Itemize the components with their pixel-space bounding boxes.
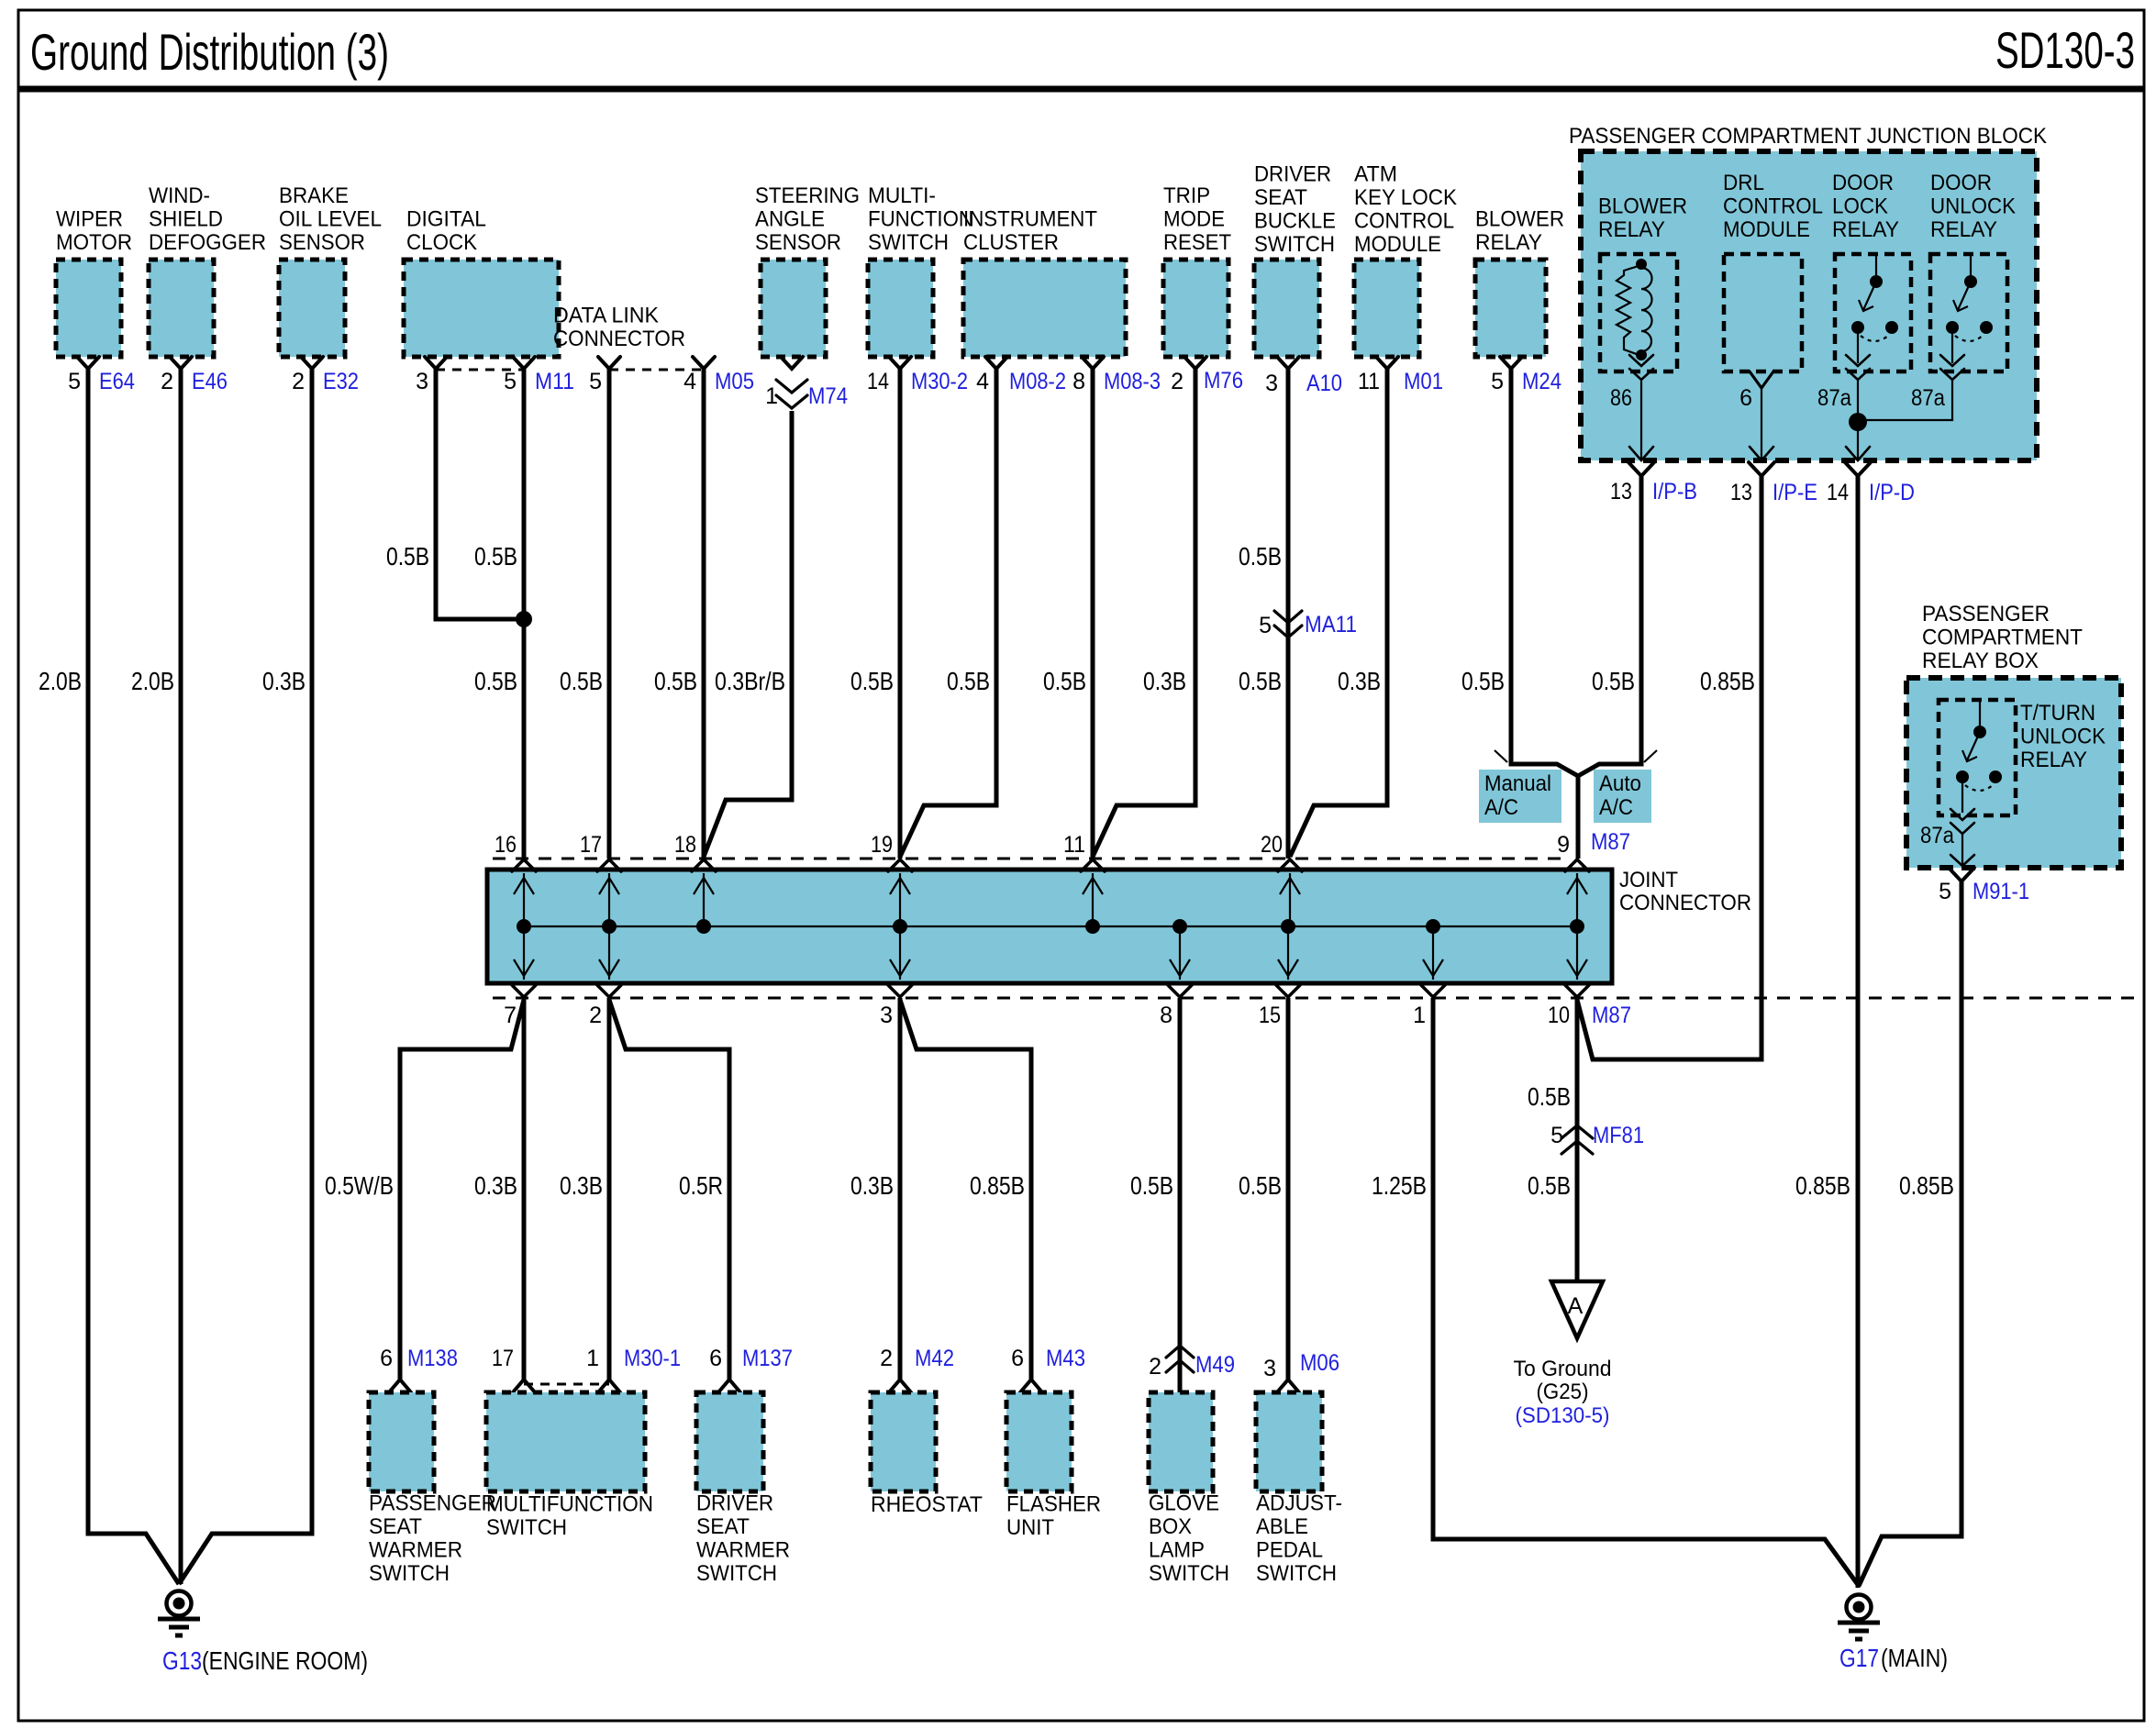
- component BLOWER RELAY (column) box: [1475, 260, 1546, 357]
- connector I/P-D pin 14: [1845, 462, 1871, 476]
- svg-text:SEAT: SEAT: [369, 1514, 422, 1539]
- svg-text:86: 86: [1610, 385, 1632, 411]
- wire M01 to joint connector pin 20 0.3B: [1290, 369, 1387, 857]
- svg-text:CLOCK: CLOCK: [406, 230, 477, 255]
- connector I/P-B pin 13: [1628, 462, 1654, 476]
- svg-text:M01: M01: [1404, 369, 1443, 394]
- svg-text:SWITCH: SWITCH: [1149, 1561, 1229, 1586]
- component PASSENGER SEAT WARMER SWITCH box: [369, 1392, 434, 1491]
- svg-text:M43: M43: [1046, 1346, 1085, 1371]
- joint connector top pin 11: [1081, 859, 1105, 926]
- svg-text:0.5B: 0.5B: [850, 667, 894, 695]
- wire joint pin 7 branch to M138 0.5W/B: [400, 1000, 524, 1380]
- svg-text:0.5B: 0.5B: [1461, 667, 1505, 695]
- pin 87a of door unlock relay: [1940, 355, 1964, 366]
- svg-text:11: 11: [1063, 832, 1085, 858]
- svg-text:PASSENGER: PASSENGER: [1922, 602, 2050, 626]
- svg-text:2: 2: [880, 1346, 893, 1371]
- svg-text:A/C: A/C: [1484, 795, 1518, 820]
- svg-text:18: 18: [674, 832, 696, 858]
- pin 86 of blower relay: [1629, 355, 1653, 366]
- svg-text:RELAY BOX: RELAY BOX: [1922, 648, 2039, 673]
- svg-text:BLOWER: BLOWER: [1598, 194, 1687, 219]
- svg-text:9: 9: [1557, 832, 1570, 858]
- svg-text:CONTROL: CONTROL: [1354, 209, 1454, 234]
- pin 87a of t/turn unlock relay: [1950, 809, 1974, 820]
- svg-text:E46: E46: [192, 369, 228, 394]
- wire M76 to joint connector pin 11 0.3B: [1093, 369, 1195, 857]
- component BRAKE OIL LEVEL SENSOR box: [279, 260, 345, 357]
- connector M05 dashed link: [609, 369, 704, 371]
- component STEERING ANGLE SENSOR box: [761, 260, 826, 357]
- svg-text:M08-3: M08-3: [1104, 369, 1161, 394]
- svg-text:16: 16: [495, 832, 517, 858]
- svg-text:17: 17: [492, 1346, 514, 1371]
- svg-text:I/P-B: I/P-B: [1652, 479, 1697, 504]
- JOINT CONNECTOR body: [487, 870, 1612, 983]
- svg-text:SENSOR: SENSOR: [279, 230, 365, 255]
- svg-text:0.5B: 0.5B: [1592, 667, 1635, 695]
- wire M11 pin 3 0.5B: [436, 369, 524, 619]
- svg-text:M91-1: M91-1: [1973, 879, 2029, 904]
- svg-text:10: 10: [1548, 1003, 1570, 1028]
- svg-text:0.3B: 0.3B: [262, 667, 306, 695]
- svg-text:6: 6: [1011, 1346, 1024, 1371]
- connector M06 fork pin 3: [1277, 1380, 1299, 1392]
- svg-text:SENSOR: SENSOR: [755, 230, 841, 255]
- component INSTRUMENT CLUSTER box: [963, 260, 1126, 357]
- wire blower relay to block edge: [1640, 380, 1642, 460]
- connector E64 fork pin 5: [77, 357, 99, 369]
- connector M24 fork pin 5: [1500, 357, 1522, 369]
- svg-text:LOCK: LOCK: [1832, 194, 1888, 219]
- wire E32 to ground G13 0.3B: [179, 369, 312, 1584]
- joint connector bus nodes: [517, 919, 531, 934]
- wire I/P-E to joint connector pin 10 0.85B: [1577, 476, 1761, 1059]
- svg-text:87a: 87a: [1920, 823, 1954, 848]
- svg-text:0.5B: 0.5B: [474, 542, 517, 571]
- svg-text:0.5B: 0.5B: [1239, 542, 1282, 571]
- connector M05 fork pin 4: [693, 357, 715, 369]
- wire joint pin 7 to M30-1 pin 17 0.3B: [522, 998, 527, 1380]
- svg-text:(ENGINE ROOM): (ENGINE ROOM): [202, 1646, 368, 1675]
- svg-text:I/P-E: I/P-E: [1773, 480, 1817, 505]
- svg-text:M74: M74: [808, 383, 848, 409]
- svg-text:DIGITAL: DIGITAL: [406, 207, 486, 232]
- svg-text:0.85B: 0.85B: [1795, 1171, 1850, 1200]
- ground G13: [167, 1591, 192, 1616]
- svg-text:WARMER: WARMER: [369, 1538, 462, 1563]
- connector E32 fork pin 2: [301, 357, 323, 369]
- svg-text:0.85B: 0.85B: [1899, 1171, 1954, 1200]
- svg-text:0.5B: 0.5B: [386, 542, 429, 571]
- svg-text:13: 13: [1610, 479, 1632, 504]
- relay T/TURN UNLOCK RELAY box: [1939, 700, 2016, 815]
- inline connector M49 pin 2: [1166, 1346, 1194, 1358]
- inline connector MF81 pin 5: [1561, 1125, 1593, 1138]
- svg-text:WARMER: WARMER: [696, 1538, 790, 1563]
- wire joint pin 1 to ground G17 1.25B: [1433, 998, 1859, 1586]
- svg-text:5: 5: [589, 369, 602, 394]
- svg-text:M87: M87: [1591, 829, 1630, 855]
- svg-text:DATA LINK: DATA LINK: [553, 304, 659, 328]
- svg-text:0.5B: 0.5B: [947, 667, 990, 695]
- component FLASHER UNIT box: [1006, 1392, 1072, 1491]
- svg-text:1: 1: [765, 383, 778, 409]
- svg-text:M05: M05: [715, 369, 754, 394]
- svg-text:2: 2: [589, 1003, 602, 1028]
- svg-text:SEAT: SEAT: [696, 1514, 750, 1539]
- svg-text:5: 5: [1939, 879, 1951, 904]
- svg-text:WIND-: WIND-: [149, 183, 210, 208]
- svg-text:17: 17: [580, 832, 602, 858]
- component DIGITAL CLOCK box: [404, 260, 559, 357]
- svg-text:(SD130-5): (SD130-5): [1516, 1403, 1610, 1428]
- component DRIVER SEAT BUCKLE SWITCH box: [1254, 260, 1319, 357]
- svg-text:A: A: [1568, 1293, 1584, 1319]
- svg-text:M87: M87: [1592, 1003, 1631, 1028]
- svg-text:13: 13: [1730, 480, 1752, 505]
- svg-text:KEY LOCK: KEY LOCK: [1354, 185, 1457, 210]
- svg-text:MOTOR: MOTOR: [56, 230, 132, 255]
- PASSENGER COMPARTMENT JUNCTION BLOCK box: [1581, 151, 2037, 460]
- svg-text:G17: G17: [1839, 1644, 1879, 1672]
- svg-text:0.5B: 0.5B: [560, 667, 603, 695]
- wire M05 pin 5 to joint connector pin 17 0.5B: [607, 369, 612, 859]
- svg-text:CONNECTOR: CONNECTOR: [1619, 891, 1751, 915]
- svg-text:2: 2: [1149, 1354, 1161, 1380]
- svg-text:8: 8: [1160, 1003, 1172, 1028]
- pin 87a of door lock relay: [1846, 355, 1870, 366]
- svg-text:0.5B: 0.5B: [654, 667, 697, 695]
- svg-text:5: 5: [504, 369, 517, 394]
- joint connector top pin 18: [692, 859, 716, 926]
- svg-text:RELAY: RELAY: [1832, 217, 1899, 242]
- svg-text:I/P-D: I/P-D: [1869, 480, 1915, 505]
- JOINT CONNECTOR internal bus: [524, 925, 1577, 927]
- connector M08-3 fork pin 8: [1082, 357, 1104, 369]
- svg-text:M08-2: M08-2: [1009, 369, 1066, 394]
- wire E46 to ground G13 2.0B: [179, 369, 183, 1584]
- svg-text:UNIT: UNIT: [1006, 1515, 1054, 1540]
- joint connector bottom pin 3: [888, 926, 912, 997]
- svg-text:INSTRUMENT: INSTRUMENT: [963, 207, 1097, 232]
- svg-text:4: 4: [683, 369, 696, 394]
- svg-text:DOOR: DOOR: [1832, 171, 1894, 195]
- svg-text:0.3B: 0.3B: [560, 1171, 603, 1200]
- svg-text:MODE: MODE: [1163, 207, 1225, 232]
- svg-text:3: 3: [1263, 1356, 1276, 1381]
- svg-text:UNLOCK: UNLOCK: [2020, 725, 2106, 749]
- svg-text:M49: M49: [1195, 1352, 1235, 1378]
- svg-text:BLOWER: BLOWER: [1475, 207, 1564, 232]
- wire E64 to ground G13 2.0B: [88, 369, 179, 1584]
- connector M137 fork pin 6: [718, 1380, 740, 1392]
- svg-text:87a: 87a: [1911, 385, 1945, 411]
- wire M05 pin 4 to joint connector pin 18 0.5B: [702, 369, 706, 859]
- svg-text:19: 19: [871, 832, 893, 858]
- wire M74 to joint connector pin 18 0.3Br/B: [704, 411, 792, 857]
- svg-text:DOOR: DOOR: [1930, 171, 1992, 195]
- svg-text:(G25): (G25): [1537, 1380, 1589, 1404]
- svg-text:14: 14: [1827, 480, 1849, 505]
- svg-text:ATM: ATM: [1354, 162, 1397, 187]
- component DRIVER SEAT WARMER SWITCH box: [696, 1392, 763, 1491]
- svg-text:M06: M06: [1300, 1350, 1339, 1376]
- svg-text:14: 14: [867, 369, 889, 394]
- wire DRL module to block edge: [1761, 388, 1762, 460]
- connector M42 fork pin 2: [889, 1380, 911, 1392]
- svg-text:PASSENGER: PASSENGER: [369, 1491, 496, 1516]
- svg-text:SWITCH: SWITCH: [369, 1561, 450, 1586]
- wire joint pin 2 branch to M137 0.5R: [609, 1000, 729, 1380]
- svg-text:WIPER: WIPER: [56, 207, 123, 232]
- svg-text:FUNCTION: FUNCTION: [868, 207, 973, 232]
- joint connector bottom pin 1: [1421, 926, 1445, 997]
- component WIPER MOTOR box: [56, 260, 121, 357]
- connector M05 fork pin 5: [598, 357, 620, 369]
- connector M74 fork pin 1: [781, 357, 803, 369]
- connector M08-2 fork pin 4: [985, 357, 1007, 369]
- connector M43 fork pin 6: [1020, 1380, 1042, 1392]
- wire M11 pin 5 to joint connector pin 16 0.5B: [522, 369, 527, 859]
- JOINT CONNECTOR upper dashed line: [493, 858, 1571, 860]
- svg-text:5: 5: [68, 369, 81, 394]
- svg-text:6: 6: [709, 1346, 722, 1371]
- svg-text:0.85B: 0.85B: [970, 1171, 1025, 1200]
- connector M11 dashed link: [436, 369, 524, 371]
- inline connector M74: [776, 380, 807, 393]
- wire M91-1 to ground G17 0.85B: [1859, 881, 1962, 1586]
- svg-text:STEERING: STEERING: [755, 183, 860, 208]
- svg-text:M11: M11: [535, 369, 574, 394]
- svg-text:5: 5: [1491, 369, 1504, 394]
- svg-text:RESET: RESET: [1163, 230, 1231, 255]
- svg-text:SHIELD: SHIELD: [149, 207, 223, 232]
- svg-text:0.3B: 0.3B: [850, 1171, 894, 1200]
- svg-text:SWITCH: SWITCH: [868, 230, 949, 255]
- svg-text:CLUSTER: CLUSTER: [963, 230, 1059, 255]
- inline connector MA11 pin 5: [1274, 611, 1302, 623]
- component ADJUSTABLE PEDAL SWITCH box: [1256, 1392, 1322, 1491]
- svg-text:RELAY: RELAY: [1930, 217, 1997, 242]
- PASSENGER COMPARTMENT RELAY BOX box: [1906, 678, 2121, 868]
- wire I/P-D to ground G17 0.85B: [1856, 476, 1861, 1588]
- svg-text:UNLOCK: UNLOCK: [1930, 194, 2016, 219]
- svg-text:BRAKE: BRAKE: [279, 183, 349, 208]
- svg-text:GLOVE: GLOVE: [1149, 1491, 1219, 1516]
- joint connector bottom pin 8: [1168, 926, 1192, 997]
- door lock relay switch: [1851, 254, 1898, 363]
- connector M91-1 pin 5: [1949, 868, 1974, 881]
- joint connector bottom pin 7: [512, 926, 536, 997]
- svg-text:E32: E32: [323, 369, 359, 394]
- svg-text:DEFOGGER: DEFOGGER: [149, 230, 266, 255]
- svg-text:M30-2: M30-2: [911, 369, 968, 394]
- wire joint pin 3 to M42 0.3B: [898, 998, 903, 1380]
- component RHEOSTAT box: [871, 1392, 936, 1491]
- svg-text:20: 20: [1261, 832, 1283, 858]
- svg-text:RHEOSTAT: RHEOSTAT: [871, 1492, 983, 1517]
- svg-text:15: 15: [1259, 1003, 1281, 1028]
- svg-text:G13: G13: [162, 1646, 202, 1675]
- joint connector top pin 9: [1565, 859, 1589, 926]
- component GLOVE BOX LAMP SWITCH box: [1149, 1392, 1213, 1491]
- svg-text:CONTROL: CONTROL: [1723, 194, 1823, 219]
- svg-text:SWITCH: SWITCH: [696, 1561, 777, 1586]
- wire joint pin 8 to M49 0.5B: [1178, 998, 1183, 1392]
- joint connector top pin 19: [888, 859, 912, 926]
- component MULTI-FUNCTION SWITCH box: [868, 260, 933, 357]
- wire joint pin 10 to ground triangle A 0.5B: [1575, 998, 1580, 1281]
- connector M30-1 fork pin 17: [513, 1380, 535, 1392]
- svg-text:DRIVER: DRIVER: [1254, 162, 1331, 187]
- svg-text:BUCKLE: BUCKLE: [1254, 209, 1336, 234]
- svg-text:1: 1: [586, 1346, 599, 1371]
- svg-text:MULTI-: MULTI-: [868, 183, 936, 208]
- wire I/P-B to joint connector pin 9 0.5B: [1578, 476, 1641, 776]
- svg-text:DRIVER: DRIVER: [696, 1491, 773, 1516]
- pin 6 of DRL control module: [1750, 371, 1773, 388]
- svg-text:6: 6: [1739, 385, 1752, 411]
- svg-text:MA11: MA11: [1305, 612, 1357, 637]
- svg-text:To Ground: To Ground: [1514, 1357, 1612, 1381]
- ground G17: [1847, 1595, 1872, 1620]
- connector M11 fork pin 3: [425, 357, 447, 369]
- svg-text:BOX: BOX: [1149, 1514, 1192, 1539]
- svg-text:(MAIN): (MAIN): [1881, 1644, 1948, 1672]
- svg-text:2: 2: [292, 369, 305, 394]
- svg-text:ADJUST-: ADJUST-: [1256, 1491, 1342, 1516]
- svg-text:3: 3: [1265, 371, 1278, 396]
- connector I/P-E pin 13: [1749, 462, 1774, 476]
- svg-text:8: 8: [1072, 369, 1085, 394]
- svg-text:0.5B: 0.5B: [1528, 1082, 1571, 1111]
- wire M30-2 to joint connector pin 19 0.5B: [898, 369, 903, 859]
- JOINT CONNECTOR lower dashed line: [493, 997, 2143, 1000]
- svg-text:1.25B: 1.25B: [1372, 1171, 1427, 1200]
- svg-text:0.5B: 0.5B: [1239, 667, 1282, 695]
- svg-text:1: 1: [1413, 1003, 1426, 1028]
- joint connector top pin 20: [1278, 859, 1302, 926]
- wire junction node to block edge: [1857, 422, 1859, 460]
- relay DOOR UNLOCK RELAY box: [1930, 254, 2007, 371]
- joint connector top pin 17: [597, 859, 621, 926]
- half connector mark on I/P-B wire: [1644, 750, 1657, 762]
- svg-text:0.3Br/B: 0.3Br/B: [715, 667, 785, 695]
- joint connector bottom pin 2: [597, 926, 621, 997]
- module DRL CONTROL MODULE box: [1724, 254, 1802, 371]
- connector M138 fork pin 6: [389, 1380, 411, 1392]
- svg-text:6: 6: [380, 1346, 393, 1371]
- connector M30-1 dashed link: [524, 1383, 609, 1386]
- wire A10 to joint connector pin 20 0.5B: [1286, 369, 1291, 859]
- svg-text:COMPARTMENT: COMPARTMENT: [1922, 626, 2083, 650]
- blower relay coil and resistor: [1617, 265, 1652, 356]
- svg-text:DRL: DRL: [1723, 171, 1764, 195]
- relay BLOWER RELAY box: [1600, 254, 1677, 371]
- component ATM KEY LOCK CONTROL MODULE box: [1354, 260, 1419, 357]
- svg-text:0.3B: 0.3B: [1338, 667, 1381, 695]
- svg-text:Manual: Manual: [1484, 771, 1551, 796]
- node junction of 87a wires: [1849, 413, 1867, 431]
- svg-text:M137: M137: [742, 1346, 793, 1371]
- svg-text:0.5W/B: 0.5W/B: [325, 1171, 394, 1200]
- svg-text:A10: A10: [1306, 371, 1342, 396]
- svg-text:E64: E64: [99, 369, 135, 394]
- svg-text:MODULE: MODULE: [1354, 232, 1441, 257]
- svg-text:0.3B: 0.3B: [1143, 667, 1186, 695]
- svg-text:SEAT: SEAT: [1254, 185, 1307, 210]
- svg-text:5: 5: [1259, 613, 1272, 638]
- node clock wires junction: [516, 611, 532, 627]
- svg-text:0.5B: 0.5B: [1043, 667, 1086, 695]
- svg-text:MULTIFUNCTION: MULTIFUNCTION: [486, 1492, 653, 1517]
- svg-text:FLASHER: FLASHER: [1006, 1492, 1101, 1517]
- component WINDSHIELD DEFOGGER box: [149, 260, 214, 357]
- svg-text:11: 11: [1358, 369, 1380, 394]
- joint connector bottom pin 15: [1276, 926, 1300, 997]
- svg-text:SD130-3: SD130-3: [1995, 21, 2135, 79]
- svg-text:LAMP: LAMP: [1149, 1538, 1205, 1563]
- connector M76 fork pin 2: [1184, 357, 1206, 369]
- svg-text:3: 3: [880, 1003, 893, 1028]
- svg-text:0.5R: 0.5R: [679, 1171, 723, 1200]
- t/turn unlock relay switch: [1956, 700, 2002, 813]
- component MULTIFUNCTION SWITCH box: [486, 1392, 645, 1491]
- svg-text:PASSENGER COMPARTMENT JUNCTION: PASSENGER COMPARTMENT JUNCTION BLOCK: [1569, 124, 2047, 149]
- svg-text:PEDAL: PEDAL: [1256, 1538, 1323, 1563]
- svg-text:OIL LEVEL: OIL LEVEL: [279, 207, 382, 232]
- component TRIP MODE RESET box: [1163, 260, 1228, 357]
- wire joint pin 2 to M30-1 pin 1 0.3B: [607, 998, 612, 1380]
- connector A10 fork pin 3: [1277, 357, 1299, 369]
- svg-text:0.85B: 0.85B: [1700, 667, 1755, 695]
- svg-text:0.3B: 0.3B: [474, 1171, 517, 1200]
- svg-text:2.0B: 2.0B: [39, 667, 82, 695]
- svg-text:7: 7: [504, 1003, 517, 1028]
- svg-text:M30-1: M30-1: [624, 1346, 681, 1371]
- svg-text:MODULE: MODULE: [1723, 217, 1810, 242]
- svg-text:0.5B: 0.5B: [1528, 1171, 1571, 1200]
- half connector mark on M24 wire: [1495, 750, 1507, 762]
- svg-text:T/TURN: T/TURN: [2020, 701, 2095, 726]
- svg-text:0.5B: 0.5B: [1239, 1171, 1282, 1200]
- svg-text:M138: M138: [407, 1346, 458, 1371]
- svg-text:RELAY: RELAY: [1598, 217, 1665, 242]
- wire door lock 87a to junction node: [1857, 380, 1859, 422]
- joint connector bottom pin 10: [1565, 926, 1589, 997]
- svg-text:5: 5: [1550, 1123, 1563, 1148]
- svg-text:SWITCH: SWITCH: [486, 1515, 567, 1540]
- wire joint pin 15 to M06 0.5B: [1286, 998, 1291, 1380]
- wire M24 to joint connector pin 9 0.5B: [1511, 369, 1578, 859]
- connector E46 fork pin 2: [170, 357, 192, 369]
- relay DOOR LOCK RELAY box: [1835, 254, 1911, 371]
- connector M01 fork pin 11: [1376, 357, 1398, 369]
- svg-text:Auto: Auto: [1599, 771, 1641, 796]
- wire joint pin 3 branch to M43 0.85B: [900, 1000, 1031, 1380]
- svg-text:M76: M76: [1204, 368, 1243, 393]
- ground triangle A (to G25): [1551, 1281, 1603, 1338]
- wire M08-3 to joint connector pin 11 0.5B: [1091, 369, 1095, 859]
- svg-text:TRIP: TRIP: [1163, 183, 1210, 208]
- wire t/turn relay to relay box edge: [1962, 834, 1963, 866]
- svg-text:2: 2: [161, 369, 173, 394]
- svg-text:4: 4: [976, 369, 989, 394]
- svg-text:2.0B: 2.0B: [131, 667, 174, 695]
- svg-text:M24: M24: [1522, 369, 1561, 394]
